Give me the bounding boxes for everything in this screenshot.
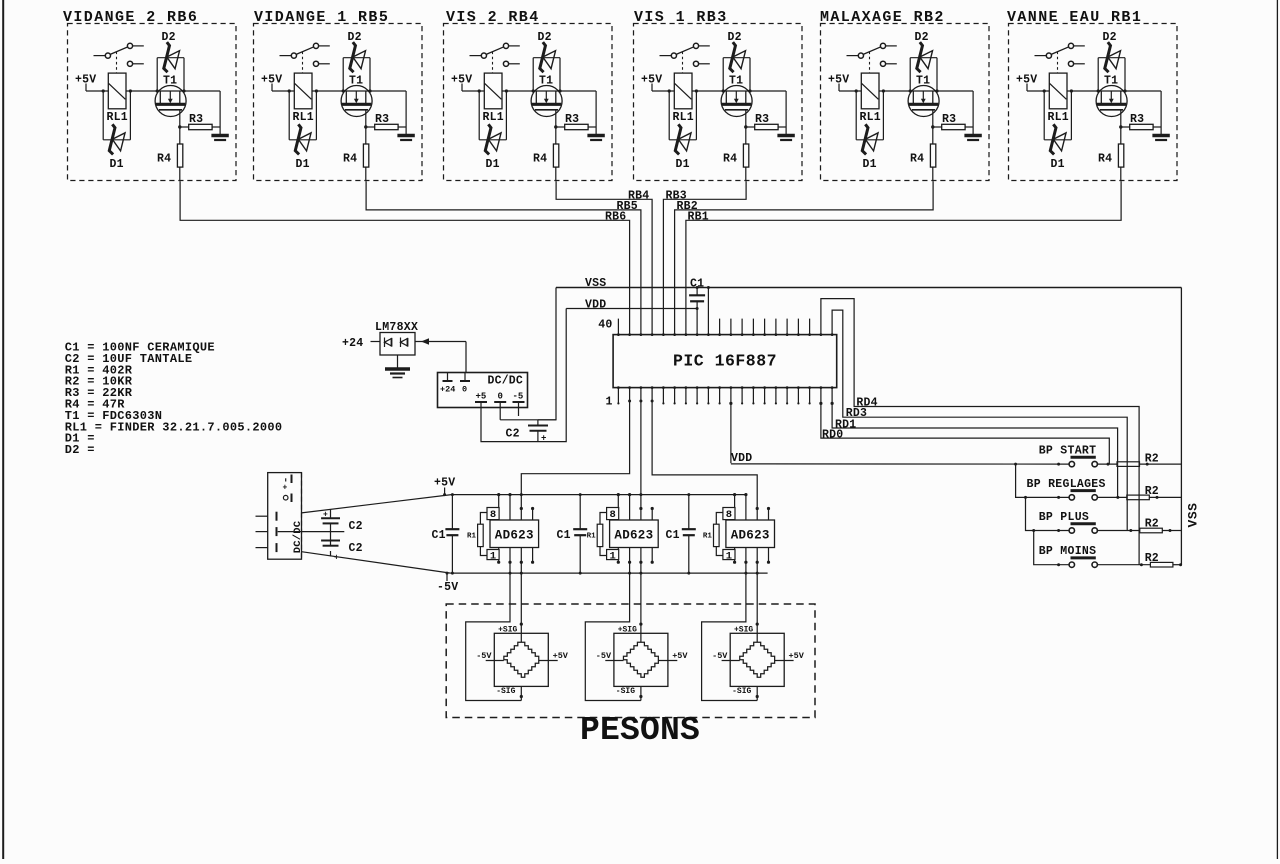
svg-text:+24: +24 — [440, 385, 455, 395]
svg-text:D1: D1 — [676, 158, 690, 171]
svg-text:AD623: AD623 — [495, 529, 534, 543]
svg-text:D2 =: D2 = — [65, 443, 95, 457]
svg-text:+: + — [283, 484, 288, 493]
svg-text:R1: R1 — [703, 532, 713, 540]
svg-text:-5V: -5V — [596, 651, 612, 661]
svg-text:D2: D2 — [728, 31, 742, 44]
svg-text:RB1: RB1 — [688, 210, 709, 223]
svg-text:-5V: -5V — [476, 651, 492, 661]
svg-text:-SIG: -SIG — [732, 687, 751, 696]
svg-text:C2: C2 — [349, 520, 363, 533]
svg-text:R2: R2 — [1145, 485, 1159, 498]
svg-text:+24: +24 — [342, 337, 363, 350]
svg-text:+: + — [334, 554, 339, 563]
svg-text:MALAXAGE RB2: MALAXAGE RB2 — [820, 9, 945, 26]
svg-text:C1: C1 — [557, 529, 571, 542]
svg-text:AD623: AD623 — [731, 529, 770, 543]
svg-text:D1: D1 — [110, 158, 124, 171]
svg-text:RL1: RL1 — [107, 111, 128, 124]
svg-text:RL1: RL1 — [293, 111, 314, 124]
svg-text:0: 0 — [462, 385, 467, 395]
svg-text:1: 1 — [609, 550, 615, 562]
svg-text:DC/DC: DC/DC — [292, 520, 304, 553]
svg-text:+5V: +5V — [672, 651, 688, 661]
svg-text:VIDANGE 2 RB6: VIDANGE 2 RB6 — [63, 9, 198, 26]
svg-text:BP REGLAGES: BP REGLAGES — [1027, 478, 1106, 491]
svg-text:0: 0 — [498, 392, 503, 402]
svg-text:8: 8 — [490, 509, 496, 521]
svg-text:C2: C2 — [349, 542, 363, 555]
svg-text:BP START: BP START — [1039, 445, 1097, 458]
svg-text:VIDANGE 1 RB5: VIDANGE 1 RB5 — [254, 9, 389, 26]
svg-text:-SIG: -SIG — [616, 687, 635, 696]
svg-text:VDD: VDD — [585, 299, 606, 312]
svg-text:+5V: +5V — [553, 651, 569, 661]
svg-text:40: 40 — [598, 319, 612, 332]
svg-text:D2: D2 — [162, 31, 176, 44]
svg-text:RL1: RL1 — [483, 111, 504, 124]
svg-text:1: 1 — [726, 550, 732, 562]
svg-text:VIS 1 RB3: VIS 1 RB3 — [634, 9, 728, 26]
svg-text:VANNE EAU RB1: VANNE EAU RB1 — [1007, 9, 1142, 26]
svg-text:C2: C2 — [506, 428, 520, 441]
svg-text:VSS: VSS — [585, 277, 606, 290]
svg-text:BP PLUS: BP PLUS — [1039, 511, 1089, 524]
svg-text:D2: D2 — [1103, 31, 1117, 44]
svg-text:D2: D2 — [915, 31, 929, 44]
svg-text:C1: C1 — [432, 529, 446, 542]
svg-text:BP MOINS: BP MOINS — [1039, 545, 1097, 558]
svg-text:PIC 16F887: PIC 16F887 — [673, 352, 777, 371]
svg-text:+5: +5 — [476, 392, 487, 402]
svg-text:D2: D2 — [538, 31, 552, 44]
svg-text:8: 8 — [726, 509, 732, 521]
svg-text:VDD: VDD — [731, 452, 752, 465]
svg-text:R4: R4 — [1098, 153, 1112, 166]
svg-text:1: 1 — [490, 550, 496, 562]
svg-text:-5V: -5V — [437, 581, 458, 594]
svg-text:R4: R4 — [343, 153, 357, 166]
svg-text:R4: R4 — [533, 153, 547, 166]
svg-text:+SIG: +SIG — [734, 625, 753, 634]
svg-text:R4: R4 — [157, 153, 171, 166]
svg-text:D1: D1 — [486, 158, 500, 171]
svg-text:+SIG: +SIG — [618, 625, 637, 634]
svg-text:RL1 = FINDER 32.21.7.005.2000: RL1 = FINDER 32.21.7.005.2000 — [65, 420, 283, 434]
svg-text:AD623: AD623 — [614, 529, 653, 543]
svg-text:R1: R1 — [587, 532, 597, 540]
svg-text:+: + — [323, 511, 328, 520]
svg-text:VIS 2 RB4: VIS 2 RB4 — [446, 9, 540, 26]
svg-text:+: + — [541, 434, 546, 444]
svg-text:R2: R2 — [1145, 452, 1159, 465]
svg-text:-SIG: -SIG — [496, 687, 515, 696]
svg-text:VSS: VSS — [1186, 503, 1201, 528]
svg-text:RD4: RD4 — [856, 397, 877, 410]
svg-text:D1: D1 — [1051, 158, 1065, 171]
svg-text:C1: C1 — [666, 529, 680, 542]
svg-text:8: 8 — [609, 509, 615, 521]
svg-text:1: 1 — [605, 396, 612, 409]
svg-text:+SIG: +SIG — [498, 625, 517, 634]
svg-text:-5V: -5V — [712, 651, 728, 661]
svg-text:R2: R2 — [1145, 518, 1159, 531]
svg-text:R1: R1 — [467, 532, 477, 540]
svg-text:R2: R2 — [1145, 552, 1159, 565]
svg-text:+5V: +5V — [789, 651, 805, 661]
svg-text:RL1: RL1 — [1048, 111, 1069, 124]
svg-text:PESONS: PESONS — [580, 712, 700, 749]
svg-text:RL1: RL1 — [673, 111, 694, 124]
svg-text:R4: R4 — [910, 153, 924, 166]
svg-text:R4: R4 — [723, 153, 737, 166]
svg-text:RB6: RB6 — [605, 210, 626, 223]
svg-text:D1: D1 — [296, 158, 310, 171]
svg-text:D1: D1 — [863, 158, 877, 171]
svg-text:D2: D2 — [348, 31, 362, 44]
svg-text:RD1: RD1 — [835, 418, 856, 431]
svg-text:-5: -5 — [513, 392, 524, 402]
svg-text:DC/DC: DC/DC — [488, 375, 524, 388]
svg-text:RL1: RL1 — [860, 111, 881, 124]
